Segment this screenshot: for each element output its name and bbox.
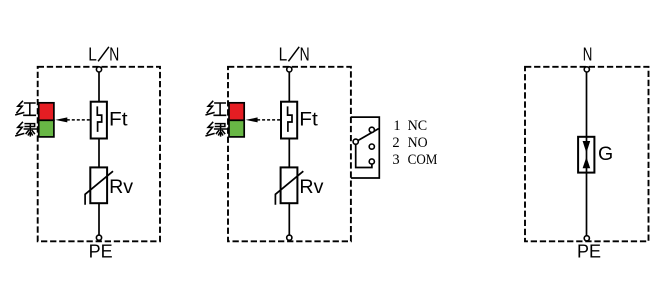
- svg-text:PE: PE: [89, 242, 113, 262]
- svg-text:L: L: [279, 44, 288, 64]
- svg-text:Ft: Ft: [299, 110, 318, 131]
- svg-text:PE: PE: [577, 242, 601, 262]
- svg-text:2: 2: [392, 135, 399, 151]
- svg-text:Rv: Rv: [299, 177, 324, 198]
- svg-text:N: N: [300, 44, 310, 64]
- svg-text:NC: NC: [408, 118, 428, 134]
- svg-text:Rv: Rv: [109, 177, 134, 198]
- svg-text:N: N: [583, 44, 593, 64]
- svg-text:L: L: [88, 44, 97, 64]
- svg-text:N: N: [109, 44, 119, 64]
- svg-text:1: 1: [393, 118, 400, 134]
- svg-text:COM: COM: [408, 152, 438, 168]
- svg-text:3: 3: [392, 152, 399, 168]
- svg-text:G: G: [598, 144, 613, 165]
- svg-text:Ft: Ft: [109, 110, 128, 131]
- svg-text:NO: NO: [408, 135, 428, 151]
